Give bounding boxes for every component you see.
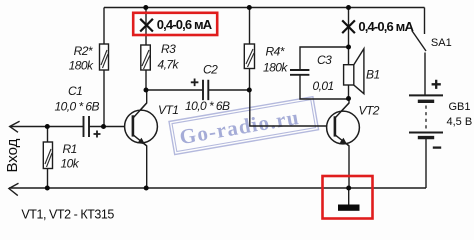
- svg-text:0,4-0,6 мА: 0,4-0,6 мА: [358, 19, 414, 34]
- svg-text:4,5 В: 4,5 В: [447, 116, 473, 128]
- svg-text:GB1: GB1: [449, 101, 471, 113]
- svg-text:Вход: Вход: [4, 138, 21, 172]
- svg-text:180k: 180k: [69, 59, 94, 73]
- svg-text:VT1, VT2 - КТ315: VT1, VT2 - КТ315: [21, 207, 114, 221]
- svg-text:R4*: R4*: [266, 45, 285, 59]
- svg-text:B1: B1: [366, 68, 380, 82]
- svg-text:C3: C3: [317, 53, 332, 67]
- svg-text:R1: R1: [63, 142, 77, 156]
- svg-text:VT1: VT1: [158, 103, 178, 117]
- svg-text:180k: 180k: [263, 61, 288, 75]
- svg-text:10k: 10k: [61, 157, 80, 171]
- svg-text:10,0 * 6В: 10,0 * 6В: [185, 99, 230, 113]
- svg-text:C1: C1: [68, 84, 82, 98]
- svg-text:SA1: SA1: [431, 37, 452, 49]
- svg-text:4,7k: 4,7k: [158, 58, 180, 72]
- svg-text:R2*: R2*: [74, 44, 93, 58]
- svg-text:VT2: VT2: [359, 104, 380, 118]
- svg-text:0,4-0,6 мА: 0,4-0,6 мА: [157, 17, 213, 32]
- svg-text:0,01: 0,01: [313, 79, 334, 93]
- svg-text:10,0 * 6В: 10,0 * 6В: [55, 100, 100, 114]
- svg-text:R3: R3: [161, 42, 176, 56]
- svg-text:C2: C2: [203, 63, 218, 77]
